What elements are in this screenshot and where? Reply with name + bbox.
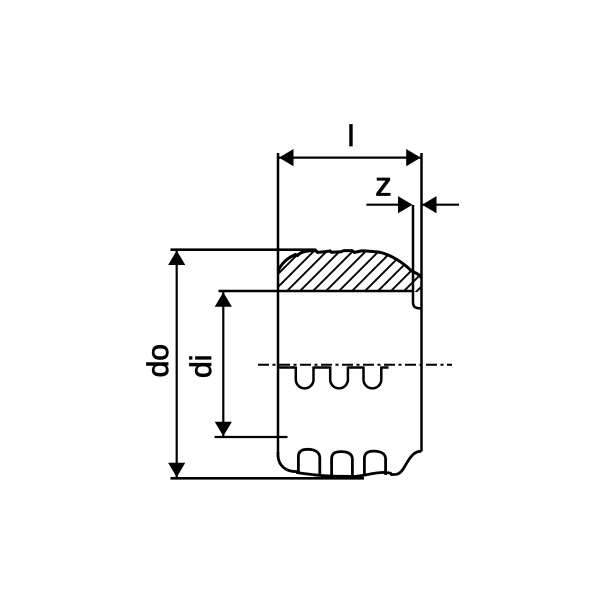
outer wavy top profile of fitting wall [278,251,422,279]
dimension line do [176,251,178,477]
svg-text:z: z [375,166,392,203]
arrowhead l right [406,149,421,166]
external rib bump 2 [332,452,353,477]
dimension line di [222,292,224,436]
svg-text:do: do [142,344,175,377]
arrowhead l left [279,149,294,166]
groove U3 [364,367,382,389]
arrowhead z left (pointing right) [398,196,413,213]
hatching of sectioned wall [252,230,478,300]
groove U2 [330,367,348,389]
dimension z left leader [366,204,411,206]
do bottom extension line [171,477,365,480]
di bottom extension line [215,436,288,438]
bore line with di top extension [219,290,414,293]
svg-text:l: l [348,120,355,153]
arrowhead z right (pointing left) [422,196,437,213]
right body edge / extension line [420,153,423,451]
arrowhead di top [215,292,232,307]
centerline (dash-dot axis) [258,364,452,366]
do top extension line [171,248,317,251]
external rib bump 3 [364,451,385,475]
arrowhead di bottom [215,422,232,437]
dimension z right leader [423,204,460,206]
left body edge / extension line [277,153,280,454]
arrowhead do bottom [168,463,185,478]
groove U1 [296,367,314,389]
dimension line l [279,157,421,159]
socket stop strip (z offset edge) [413,205,422,308]
svg-text:di: di [185,355,218,378]
bottom outline of fitting body [278,451,422,476]
arrowhead do top [168,251,185,266]
inner bore line segments between grooves [278,366,389,369]
external rib bump 1 [298,449,319,475]
